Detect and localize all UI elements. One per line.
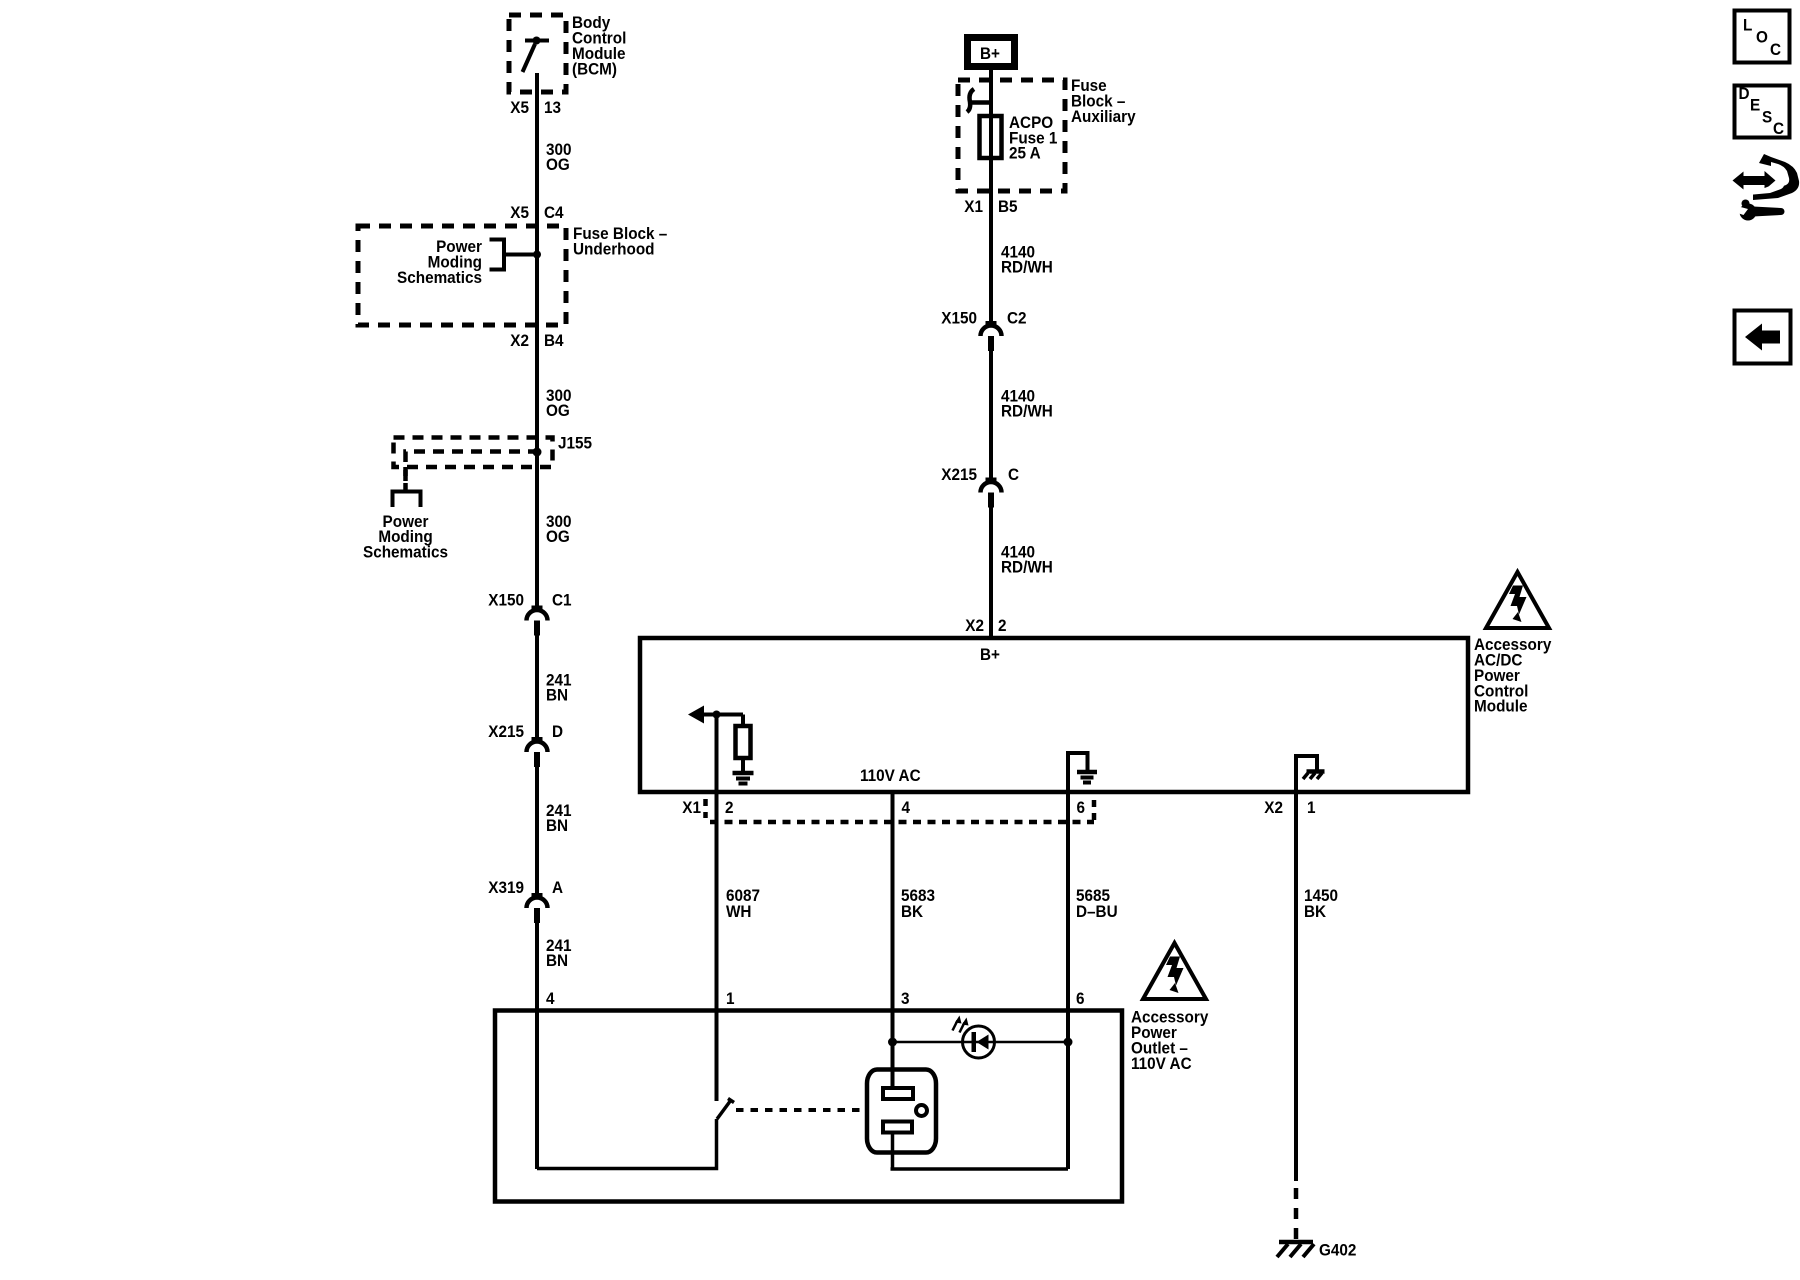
related-info icon (arrows and wrench)	[1733, 154, 1800, 221]
wire outlet bottom slot to rail	[891, 1132, 895, 1169]
fuse holder clip	[967, 89, 991, 112]
inner wire pin4 to switch	[537, 1119, 717, 1169]
svg-text:X5: X5	[510, 98, 529, 117]
wire BCM X5-13 down to J155 and X150 C1	[535, 73, 539, 610]
dashed drop to power moding bracket	[403, 467, 408, 490]
internal ground at pin 6	[1068, 753, 1088, 792]
Body Control Module (BCM) dashed box	[509, 15, 566, 92]
svg-text:X150: X150	[488, 591, 524, 610]
junction dot inside module	[713, 711, 721, 719]
ground G402	[1279, 1240, 1313, 1245]
outlet bottom slot	[883, 1122, 912, 1133]
svg-text:RD/WH: RD/WH	[1001, 258, 1053, 277]
back arrow nav box	[1735, 311, 1791, 364]
bracket above Power Moding Schematics	[393, 492, 421, 508]
B+ battery feed box	[968, 38, 1015, 67]
in-line connector symbol X215 D	[527, 742, 548, 753]
svg-text:C4: C4	[544, 203, 564, 222]
svg-text:X1: X1	[964, 197, 983, 216]
svg-text:E: E	[1750, 96, 1760, 115]
svg-text:J155: J155	[558, 434, 592, 453]
internal chassis ground at pin X2-1	[1296, 756, 1317, 792]
dashed wire to G402	[1294, 1188, 1299, 1242]
svg-text:S: S	[1762, 108, 1772, 127]
LED light arrows	[953, 1016, 969, 1033]
wire C2 to X215 C	[989, 351, 993, 482]
power outlet receptacle face	[867, 1070, 936, 1153]
svg-text:G402: G402	[1319, 1241, 1356, 1260]
in-line connector symbol X215 C	[981, 482, 1002, 493]
svg-text:13: 13	[544, 98, 561, 117]
svg-text:3: 3	[901, 989, 910, 1008]
wire C1 to X215 D	[535, 636, 539, 742]
svg-text:1: 1	[726, 989, 735, 1008]
svg-text:110V AC: 110V AC	[1131, 1054, 1192, 1073]
svg-text:BK: BK	[1304, 902, 1326, 921]
svg-text:BN: BN	[546, 686, 568, 705]
svg-text:D–BU: D–BU	[1076, 902, 1118, 921]
svg-text:BN: BN	[546, 951, 568, 970]
svg-text:O: O	[1756, 28, 1768, 47]
svg-text:B4: B4	[544, 331, 564, 350]
svg-text:OG: OG	[546, 527, 570, 546]
svg-text:RD/WH: RD/WH	[1001, 402, 1053, 421]
svg-text:6: 6	[1076, 989, 1085, 1008]
ground symbol under resistor	[733, 771, 754, 776]
J155 splice dashed box A	[394, 438, 553, 468]
svg-text:WH: WH	[726, 902, 751, 921]
LOC nav box	[1735, 11, 1790, 63]
resistor inside module	[741, 715, 745, 727]
wire module pin4 down to outlet pin3	[891, 792, 895, 1090]
switch linkage dashed line	[736, 1108, 866, 1112]
Accessory AC/DC Power Control Module box	[640, 638, 1468, 792]
Fuse Block - Auxiliary dashed box	[958, 80, 1065, 191]
LED triangle	[977, 1035, 989, 1050]
svg-text:C: C	[1773, 119, 1784, 138]
svg-text:X215: X215	[488, 722, 524, 741]
svg-text:Schematics: Schematics	[363, 543, 448, 562]
junction dot J155	[533, 448, 542, 457]
Fuse Block - Underhood dashed box	[358, 226, 566, 325]
svg-text:L: L	[1743, 16, 1752, 35]
svg-text:OG: OG	[546, 401, 570, 420]
in-line connector symbol X150 C1	[527, 610, 548, 621]
svg-text:C2: C2	[1007, 309, 1027, 328]
svg-text:C: C	[1008, 465, 1019, 484]
J155 splice dashed box B	[406, 452, 538, 482]
svg-text:1: 1	[1307, 798, 1316, 817]
bottom rail to pin 6 wire	[891, 1167, 1069, 1171]
svg-text:X2: X2	[1264, 798, 1283, 817]
svg-text:Auxiliary: Auxiliary	[1071, 107, 1136, 126]
bracket to Power Moding Schematics	[490, 240, 538, 270]
in-line connector symbol X319 A	[527, 898, 548, 909]
svg-text:110V AC: 110V AC	[860, 766, 921, 785]
switch blade	[717, 1100, 731, 1119]
warning triangle (outlet)	[1143, 943, 1206, 999]
svg-text:Underhood: Underhood	[573, 240, 655, 259]
svg-text:B+: B+	[980, 44, 1000, 63]
Accessory Power Outlet box	[495, 1011, 1122, 1202]
in-line connector symbol X150 C2	[981, 326, 1002, 337]
svg-text:B5: B5	[998, 197, 1018, 216]
LED wire	[893, 1041, 1069, 1044]
svg-text:X215: X215	[941, 465, 977, 484]
svg-text:X319: X319	[488, 878, 524, 897]
svg-text:Module: Module	[1474, 697, 1528, 716]
wire B+ down to fuse	[989, 70, 993, 326]
DESC nav box	[1735, 86, 1790, 138]
svg-text:A: A	[552, 878, 563, 897]
fuse ACPO Fuse 1 25A	[980, 116, 1002, 158]
wire module pin6 down to LED junction	[1066, 792, 1070, 1169]
BCM driver switch	[523, 37, 550, 73]
svg-text:4: 4	[902, 798, 911, 817]
outlet ground hole	[916, 1105, 927, 1116]
wire C down to module	[989, 508, 993, 639]
svg-text:6: 6	[1077, 798, 1086, 817]
wire D to X319 A	[535, 767, 539, 898]
svg-text:OG: OG	[546, 155, 570, 174]
svg-text:25 A: 25 A	[1009, 144, 1041, 163]
LED circle	[963, 1026, 995, 1058]
svg-text:C1: C1	[552, 591, 572, 610]
svg-text:D: D	[552, 722, 563, 741]
svg-text:X150: X150	[941, 309, 977, 328]
svg-text:X2: X2	[510, 331, 529, 350]
X1 connector dashed outline	[703, 799, 708, 818]
svg-text:2: 2	[725, 798, 734, 817]
outlet top slot	[883, 1088, 913, 1099]
svg-text:C: C	[1770, 40, 1781, 59]
svg-text:X2: X2	[965, 616, 984, 635]
svg-text:(BCM): (BCM)	[572, 60, 617, 79]
LED cathode bar	[972, 1032, 977, 1052]
svg-text:2: 2	[998, 616, 1007, 635]
warning triangle (module)	[1486, 572, 1549, 628]
svg-text:X1: X1	[682, 798, 701, 817]
svg-text:RD/WH: RD/WH	[1001, 558, 1053, 577]
svg-text:Schematics: Schematics	[397, 268, 482, 287]
svg-text:BK: BK	[901, 902, 923, 921]
svg-text:X5: X5	[510, 203, 529, 222]
wire A down into outlet box	[535, 923, 539, 1169]
wire module X2-1 down to G402	[1294, 792, 1298, 1181]
svg-text:B+: B+	[980, 645, 1000, 664]
svg-text:BN: BN	[546, 816, 568, 835]
junction dot LED right	[1064, 1038, 1073, 1047]
voltage-control arrow inside module	[702, 713, 743, 717]
junction dot at underhood splice	[533, 251, 541, 259]
svg-text:D: D	[1739, 84, 1750, 103]
junction dot LED left	[888, 1038, 897, 1047]
svg-text:4: 4	[546, 989, 555, 1008]
wire from junction down through module pin X1-2	[715, 715, 719, 1102]
